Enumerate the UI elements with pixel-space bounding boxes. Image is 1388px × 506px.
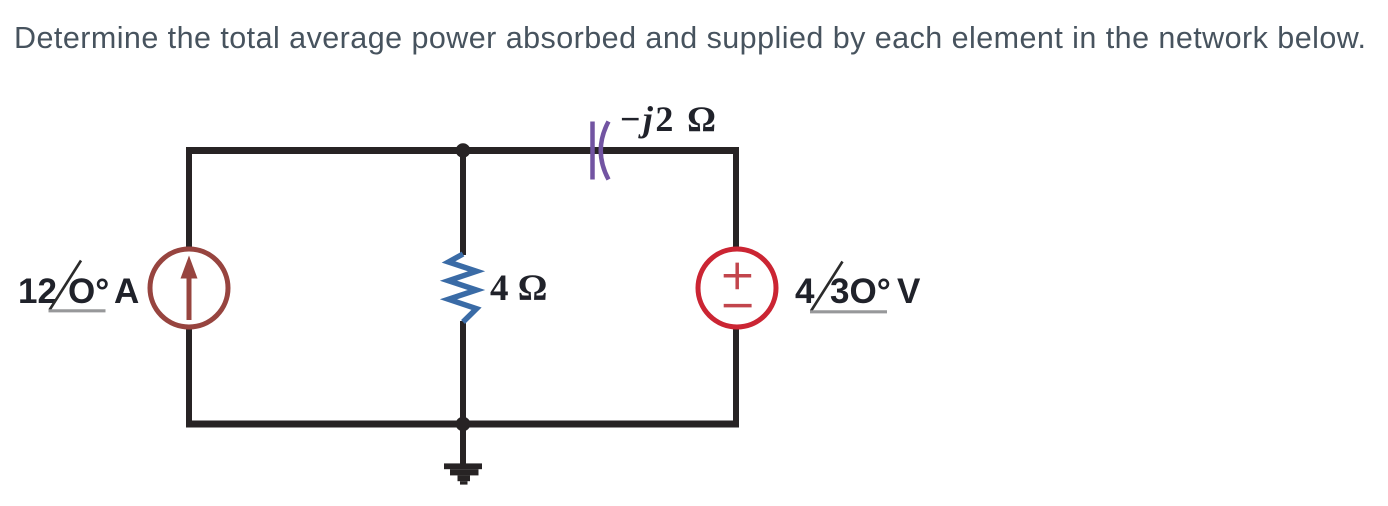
wire resistor branch upper [460, 151, 466, 256]
label 4 angle 30 deg V [795, 272, 921, 311]
wire left vertical lower [186, 328, 192, 427]
voltage source VS 4 angle 30 deg V (circle) [698, 249, 776, 327]
wire right vertical upper [733, 147, 739, 249]
label 12 angle 0 deg A [18, 272, 139, 311]
svg-text:3O°: 3O° [830, 272, 891, 311]
current source IS 12&#8736;0&#176; A (circle) [150, 249, 228, 327]
svg-text:A: A [114, 272, 139, 311]
ground symbol [444, 424, 482, 485]
current source arrow [181, 256, 198, 321]
voltage source minus sign [724, 304, 752, 308]
angle symbol for 12 label (slash and underline) [49, 261, 106, 311]
wire resistor branch lower [460, 321, 466, 424]
node dot top (junction of top wire and resistor branch) [456, 143, 471, 158]
svg-text:−j2 Ω: −j2 Ω [620, 99, 716, 139]
svg-text:V: V [897, 272, 921, 311]
wire left vertical upper [186, 147, 192, 249]
svg-text:4 Ω: 4 Ω [490, 268, 547, 309]
svg-text:4: 4 [795, 272, 815, 311]
wire right vertical lower [733, 328, 739, 427]
svg-text:Determine the total average po: Determine the total average power absorb… [14, 21, 1366, 55]
wire top (node between source, resistor, capacitor) [186, 147, 736, 154]
capacitor C -j2 ohm (left straight plate) [590, 122, 595, 180]
resistor R 4 ohm (zigzag) [449, 254, 477, 322]
wire bottom [186, 421, 739, 428]
label 4 ohm [490, 268, 547, 309]
capacitor curved plate [601, 122, 609, 180]
title text [14, 21, 1366, 55]
svg-text:O°: O° [68, 272, 109, 311]
voltage source plus sign [724, 263, 752, 290]
node dot bottom (junction of bottom wire and ground) [456, 417, 471, 432]
angle symbol for 4 label (slash and underline) [810, 262, 887, 312]
label -j2 ohm [620, 99, 716, 139]
